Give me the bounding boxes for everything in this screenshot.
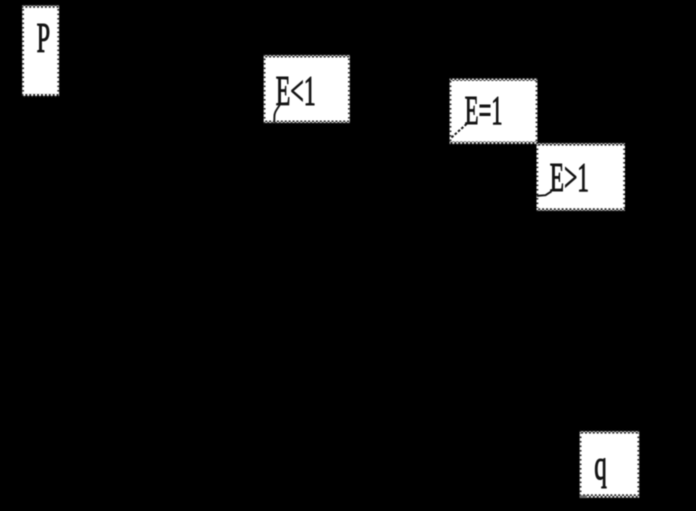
label box E>1 (537, 142, 626, 212)
svg-text:q: q (594, 443, 607, 489)
svg-text:E>1: E>1 (550, 156, 589, 201)
svg-text:E<1: E<1 (276, 68, 316, 115)
leader line for E>1 (537, 191, 552, 196)
label box P (price axis label) (22, 4, 59, 97)
svg-text:P: P (37, 15, 50, 62)
label box q (quantity axis label) (580, 430, 640, 498)
label box E<1 (264, 54, 350, 124)
label box E=1 (450, 78, 538, 145)
leader line for E<1 (274, 105, 280, 123)
svg-text:E=1: E=1 (465, 89, 503, 134)
leader stub at q box corner (580, 495, 587, 498)
leader line for E=1 (452, 124, 467, 138)
